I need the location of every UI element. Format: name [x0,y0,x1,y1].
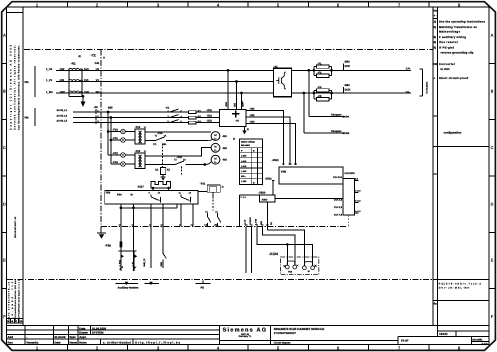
svg-text:1W1: 1W1 [84,91,90,94]
svg-text:-F12: -F12 [113,152,119,155]
svg-text:SBL/ProjMPmBln Druk degre | 1: SBL/ProjMPmBln Druk degre | 1 1 1 1 [18,279,21,322]
dashed stub below interface box [348,215,350,227]
svg-text:-T41: -T41 [200,182,206,185]
svg-text:Rev.: Rev. [8,341,14,345]
svg-text:E: E [3,259,6,263]
ruler numbers bottom [36,346,461,351]
svg-text:Norm: Norm [79,341,87,345]
svg-text:s. Artikel-Symbol: s. Artikel-Symbol [103,341,131,345]
fan motor M2 [211,143,227,152]
rectifier U1 thyristor symbol [276,72,286,89]
svg-text:Add: Add [8,335,14,339]
fuse B3 [188,121,201,124]
svg-text:A-L12: A-L12 [355,210,361,213]
svg-text:-X30: -X30 [225,101,228,107]
svg-text:D=KL/AemKaSanit-Betrieb 390 mv: D=KL/AemKaSanit-Betrieb 390 mv/ [14,280,17,322]
ruler numbers top [36,2,461,7]
svg-text:A-L10: A-L10 [355,190,361,193]
svg-text:X30: X30 [234,102,237,107]
label X11 X21 X31 [207,109,213,123]
svg-text:F/: F/ [7,320,10,323]
svg-text:V2M: V2M [281,171,286,174]
svg-text:1): 1) [144,150,146,153]
svg-text:-F10: -F10 [113,129,119,132]
wire drop 151 [150,204,152,268]
svg-text:-X521: -X521 [272,159,279,162]
reactor R1 winding L2 [69,80,83,82]
svg-text:Orig./Repl.f./Repl.by: Orig./Repl.f./Repl.by [135,341,180,345]
svg-text:-T10: -T10 [135,126,141,129]
svg-text:SYSTEM: SYSTEM [92,331,104,335]
svg-text:1_M: 1_M [132,262,135,266]
breaker F13 branch [111,161,135,166]
wire drop PE stub 246 [245,227,247,274]
dash-dot unit boundary middle horizontal [101,226,347,228]
wire T20 out upper to fan M2 [145,148,211,157]
wire A860 to D1A [275,198,343,200]
relay contact 11-14 inside box [179,191,192,202]
svg-text:M52: M52 [345,61,351,64]
svg-text:1W2: 1W2 [60,91,66,94]
ruler tick marks right band [489,63,495,288]
fuse F2 [314,71,332,77]
breaker F11 branch [110,118,135,165]
wire phase 1_U1 [56,69,274,71]
ruler tick marks left band [2,63,6,288]
svg-text:Aus Betriebsgeheimnis anvertra: Aus Betriebsgeheimnis anvertraut. Alle R… [17,45,20,130]
svg-text:-F4: -F4 [318,86,322,89]
pin D1A 3 [334,200,362,209]
wire to X124 terminal 2 [263,227,295,266]
wire tap vertical to module phase 1 [227,69,230,109]
svg-text:1U-X9_L1: 1U-X9_L1 [57,109,68,112]
svg-text:1V1: 1V1 [84,79,89,82]
svg-text:Drawn: Drawn [79,331,88,335]
svg-text:PM: PM [25,81,29,84]
svg-text:B: B [3,90,6,94]
dashed link contact T2 [181,167,183,177]
capacitor plus symbol inside module [232,110,240,117]
wire aux phase L2 [73,117,220,119]
transformer T20 [135,150,146,168]
power module A2 box [220,109,246,126]
svg-text:-P26: -P26 [105,243,111,247]
svg-text:-F13: -F13 [113,161,119,164]
svg-text:-F2: -F2 [318,71,322,74]
svg-text:configuration: configuration [444,130,462,134]
svg-text:PE: PE [201,287,205,290]
node dot aux L2 tap [110,116,113,119]
wire aux phase L1 [73,111,220,113]
bottom-left mini table [7,319,24,323]
svg-text:1V2: 1V2 [60,79,65,82]
wire X22 to VSM [258,117,290,165]
svg-text:P1-1P: P1-1P [401,339,409,342]
title block texts left [8,326,181,344]
contact L15 [163,253,167,268]
wire drop N stub 251 [251,227,253,274]
wire drop 181 [180,204,182,227]
relay box F58 [105,190,198,204]
svg-text:D: D [3,202,6,206]
svg-text:D1A 2,8: D1A 2,8 [334,199,343,202]
svg-text:D1A 7,8: D1A 7,8 [334,213,343,216]
node dot aux L1 tap [107,111,110,114]
wire chopper DCPA [309,70,350,118]
ruler letters left [3,33,6,319]
svg-text:01.04.09: 01.04.09 [55,335,66,339]
svg-text:5): 5) [434,45,437,49]
svg-text:line reactor: line reactor [439,40,459,44]
svg-text:X2: X2 [167,168,171,171]
label X30 rotated taps [225,100,245,107]
node PM supply bracket lower [25,108,35,126]
svg-text:-F5: -F5 [318,95,322,98]
svg-text:-K1: -K1 [166,106,171,109]
contact X10 T1 [145,132,208,146]
svg-text:DC-busbars: DC-busbars [426,81,429,94]
dash-dot unit boundary bottom horizontal [7,279,433,281]
svg-text:2): 2) [222,186,224,189]
svg-text:3): 3) [434,35,437,39]
svg-text:-X531: -X531 [265,178,272,181]
wire aux phase L3 [73,122,220,124]
svg-text:-X117: -X117 [137,186,144,189]
svg-text:1): 1) [434,19,437,23]
wire tap vertical to module phase 3 [240,92,243,110]
svg-text:F58: F58 [106,191,111,194]
svg-text:Auxiliary feeders: Auxiliary feeders [118,287,139,290]
svg-text:-F1: -F1 [318,62,322,65]
reactor R1 winding L3 [69,91,83,93]
svg-text:4): 4) [78,55,80,58]
svg-text:4B5: 4B5 [108,106,113,109]
rectifier U1 box [274,68,292,96]
svg-text:M: M [308,270,310,273]
svg-text:-T20: -T20 [135,150,141,153]
ground drop from W1 [81,95,86,107]
fuse B1 [188,110,201,113]
transformer T41 [198,182,224,210]
wire phase 1_W1 [56,92,274,94]
svg-text:P34: P34 [117,193,122,196]
svg-text:D: D [491,202,494,206]
svg-text:-X20: -X20 [250,121,256,124]
svg-text:-F11: -F11 [113,137,119,140]
svg-text:See the operating instructions: See the operating instructions [439,19,485,23]
svg-text:-T2: -T2 [91,54,96,58]
notes column borders [433,7,489,326]
terminal X9 [94,106,100,125]
slash marks feeders [120,267,137,270]
terminal ticks on interface line [119,224,218,226]
reactor R1 phantom outline [69,69,83,97]
controller outline C10 [240,195,260,227]
svg-text:1A: 1A [164,134,167,137]
svg-text:2BL: 2BL [163,143,168,146]
module A860 [258,192,275,203]
svg-text:PQ[578-48G/v.7xxk-2: PQ[578-48G/v.7xxk-2 [439,282,482,285]
svg-text:C/+: C/+ [406,67,411,71]
svg-text:A1: A1 [155,168,159,171]
svg-text:-M2: -M2 [222,147,227,150]
wire link below box [120,204,178,209]
svg-text:C: C [3,146,6,150]
svg-text:1_P15: 1_P15 [118,259,121,266]
svg-text:L2_N: L2_N [244,219,247,225]
svg-text:Syst: Syst [70,335,76,339]
svg-text:=8430: =8430 [439,332,448,336]
relay contact 9-14 inside box [149,191,161,202]
svg-text:PM: PM [25,117,29,120]
module right pins X32 X22 X20 [246,108,258,124]
svg-text:1_P15: 1_P15 [255,218,258,225]
contact 13-14 [204,210,211,226]
net flag DCP [343,61,350,71]
breaker F12 branch [108,152,135,157]
svg-text:B4B_12: B4B_12 [143,258,146,267]
svg-text:A860: A860 [262,198,268,201]
svg-text:-X31: -X31 [207,120,213,123]
wire A860 down [266,202,268,230]
svg-text:D1A 2,8: D1A 2,8 [334,206,343,209]
svg-text:E: E [491,259,494,263]
wire DCP bus [292,69,412,71]
svg-text:380-480V: 380-480V [241,144,251,147]
wire phase 1_V1 [56,81,274,83]
svg-text:B1: B1 [198,110,202,113]
dash-dot unit boundary top horizontal [24,49,433,51]
svg-text:-X520: -X520 [258,192,265,195]
svg-text:A-L10: A-L10 [355,200,361,203]
svg-text:1U2: 1U2 [60,68,65,71]
module VSM box [279,167,343,184]
svg-text:K1P,K500: K1P,K500 [345,172,356,175]
DC-busbars bracket [420,69,429,96]
terminal block X124 [269,252,319,275]
wire to X124 terminal 4 [287,244,312,265]
svg-text:DKv-JG-MSL-M9: DKv-JG-MSL-M9 [439,287,470,290]
svg-text:Short circuit-proof: Short circuit-proof [439,76,468,80]
indicator P26 [105,241,138,271]
svg-text:5 50: 5 50 [482,342,488,346]
svg-text:2A: 2A [183,158,186,161]
pin D1A top [333,176,359,181]
svg-text:1_U1: 1_U1 [46,68,53,71]
wire drop 163 contact branch [162,204,164,253]
svg-text:B2: B2 [198,116,202,119]
svg-text:-X11: -X11 [207,109,213,112]
svg-text:L 575: L 575 [241,165,247,168]
wire tap vertical to module phase 2 [235,80,238,109]
wire T10 out upper to fan M1 [145,131,211,133]
PE feeder bracket [196,281,211,290]
net flag DCN [343,84,350,93]
svg-text:No.: No. [434,8,439,12]
svg-text:Germany TL: Germany TL [239,335,252,338]
svg-text:Date: Date [55,341,62,345]
wire DCN bus [292,92,412,94]
svg-text:1): 1) [144,126,146,129]
tick X531 [272,179,275,181]
ground arrow below module [242,126,250,134]
title block [7,326,490,345]
node PM supply bracket upper [25,66,35,97]
svg-text:B: B [491,90,494,94]
svg-text:-X10: -X10 [157,132,163,135]
svg-text:ZY4HS673900007: ZY4HS673900007 [274,332,297,335]
svg-text:-X124: -X124 [269,252,278,256]
svg-text:SINAMICS S120 CABINET MODULE: SINAMICS S120 CABINET MODULE [274,327,325,331]
svg-text:D1A R.B: D1A R.B [333,176,342,179]
terminal ticks X521 [282,163,297,165]
svg-text:1_W1: 1_W1 [46,91,53,94]
svg-text:4): 4) [434,40,437,44]
svg-text:-X9: -X9 [94,106,99,109]
svg-text:L 540: L 540 [241,160,247,163]
wire chopper DCNA [304,93,350,135]
svg-text:DCP: DCP [345,65,351,68]
svg-text:L 600: L 600 [241,170,247,173]
svg-text:1U-X9_L2: 1U-X9_L2 [57,115,68,118]
svg-text:A: A [3,33,6,37]
svg-text:H6: H6 [434,62,438,66]
wire X20 down to A860 [258,123,296,165]
wire drop 193 [192,204,194,227]
label phase terminals left [46,68,65,94]
label phase terminals right of reactor [84,68,100,94]
svg-text:Covered confidential. All righ: Covered confidential. All rights reserve… [13,45,16,130]
wire to X124 terminal 3 [267,230,304,266]
svg-text:BLN.NMBR. 7L3: BLN.NMBR. 7L3 [11,281,14,322]
label aux feeder names [57,109,68,123]
svg-text:A: A [491,33,494,37]
svg-text:V1: V1 [96,79,100,82]
svg-text:L 500: L 500 [241,155,247,158]
rotated labels right cluster [244,217,273,225]
svg-text:DCNA: DCNA [343,132,350,135]
wire to X124 terminal 1 [257,227,287,266]
fuse B2 [188,116,201,119]
pin D1A 2 [334,190,362,202]
svg-text:2): 2) [434,25,437,29]
fan motor M1 [208,132,227,141]
svg-text:1U-X9_L3: 1U-X9_L3 [57,120,68,123]
svg-text:reverse grounding clip: reverse grounding clip [441,50,474,54]
copyright column divider [22,7,24,326]
svg-text:Appr.: Appr. [79,335,86,339]
svg-text:Name: Name [70,341,78,345]
svg-text:C 1 0: C 1 0 [241,196,247,199]
svg-text:M: M [214,158,216,161]
svg-text:M52: M52 [345,84,351,87]
svg-text:B3: B3 [198,121,202,124]
svg-text:DCPA: DCPA [343,115,350,118]
svg-text:-A1: -A1 [274,65,279,68]
svg-text:-X21: -X21 [207,115,213,118]
svg-text:-M3: -M3 [222,159,227,162]
auxiliary feeder arrows [116,282,160,290]
svg-text:Chopper: Chopper [331,130,342,133]
svg-text:W1: W1 [96,91,100,94]
svg-text:-: - [27,335,28,339]
svg-text:Mains voltage: Mains voltage [241,141,256,144]
wire drop P26 branch [120,204,122,241]
svg-text:●: ● [434,76,436,80]
svg-text:D/-: D/- [406,90,410,94]
rotated wire labels left cluster [118,258,163,267]
interface box D1A [343,179,355,216]
svg-text:Converter: Converter [439,62,456,66]
fuse F3 [314,86,332,99]
svg-text:U1: U1 [96,68,100,71]
wire X32 to VSM [258,111,283,166]
node dots DCN [302,92,332,95]
svg-text:-X10: -X10 [177,156,183,159]
svg-text:-X32: -X32 [250,108,256,111]
ruler letters right [491,33,494,319]
svg-text:6a: 6a [434,301,438,305]
fuse F1 [314,62,332,75]
connector X117 plug [137,182,171,191]
svg-text:to JCH: to JCH [441,67,450,71]
contact X10 T2 [145,156,205,165]
svg-text:-R1: -R1 [71,62,76,66]
svg-text:+ -: + - [434,14,437,17]
svg-text:L 620: L 620 [241,180,247,183]
copyright column top cell [7,12,24,14]
svg-text:-X22: -X22 [250,114,256,117]
MLFB option table [233,137,263,184]
svg-text:Mainsvoltage: Mainsvoltage [439,29,460,33]
node dots DCP [307,69,332,72]
contact 21-22 [214,210,221,226]
transformer T10 [135,126,146,144]
svg-text:2): 2) [233,137,235,140]
terminal ticks right cluster [245,224,268,226]
svg-text:AC230V: AC230V [249,217,252,225]
dash-dot unit boundary left vertical [100,50,102,233]
breaker F10 branch [107,112,135,155]
svg-text:Matching Transformer on: Matching Transformer on [439,25,477,29]
svg-text:C: C [491,146,494,150]
svg-text:F41: F41 [95,62,100,65]
fuse F4 [314,95,332,101]
svg-text:-M1: -M1 [222,135,227,138]
svg-text:1U1: 1U1 [84,68,89,71]
svg-text:If PE-ghd: If PE-ghd [439,45,454,49]
fan motor M3 [203,155,227,166]
svg-text:M: M [214,146,216,149]
svg-text:M: M [214,134,216,137]
notes list text [434,19,486,80]
wire drop 133 [133,204,135,271]
svg-text:Chopper: Chopper [331,113,342,116]
PE ground at interface [97,233,106,239]
svg-text:Frank ZYXEL0697B_JA: Frank ZYXEL0697B_JA [8,281,11,322]
ruler tick marks top band [67,3,429,8]
svg-text:DIN A3 ISO 5457 - A3: DIN A3 ISO 5457 - A3 [14,216,17,238]
svg-text:DCN: DCN [345,88,351,91]
copyright vertical text bottom block [8,279,21,322]
reactor R1 winding L1 [69,68,83,70]
ruler tick marks bottom band [67,345,429,350]
svg-text:Circuit diagram: Circuit diagram [274,342,291,345]
pin D1A 4 [334,210,362,216]
svg-text:M: M [131,193,133,196]
contactor K1 [166,106,183,123]
svg-text:F auxiliary wiring: F auxiliary wiring [439,35,466,39]
